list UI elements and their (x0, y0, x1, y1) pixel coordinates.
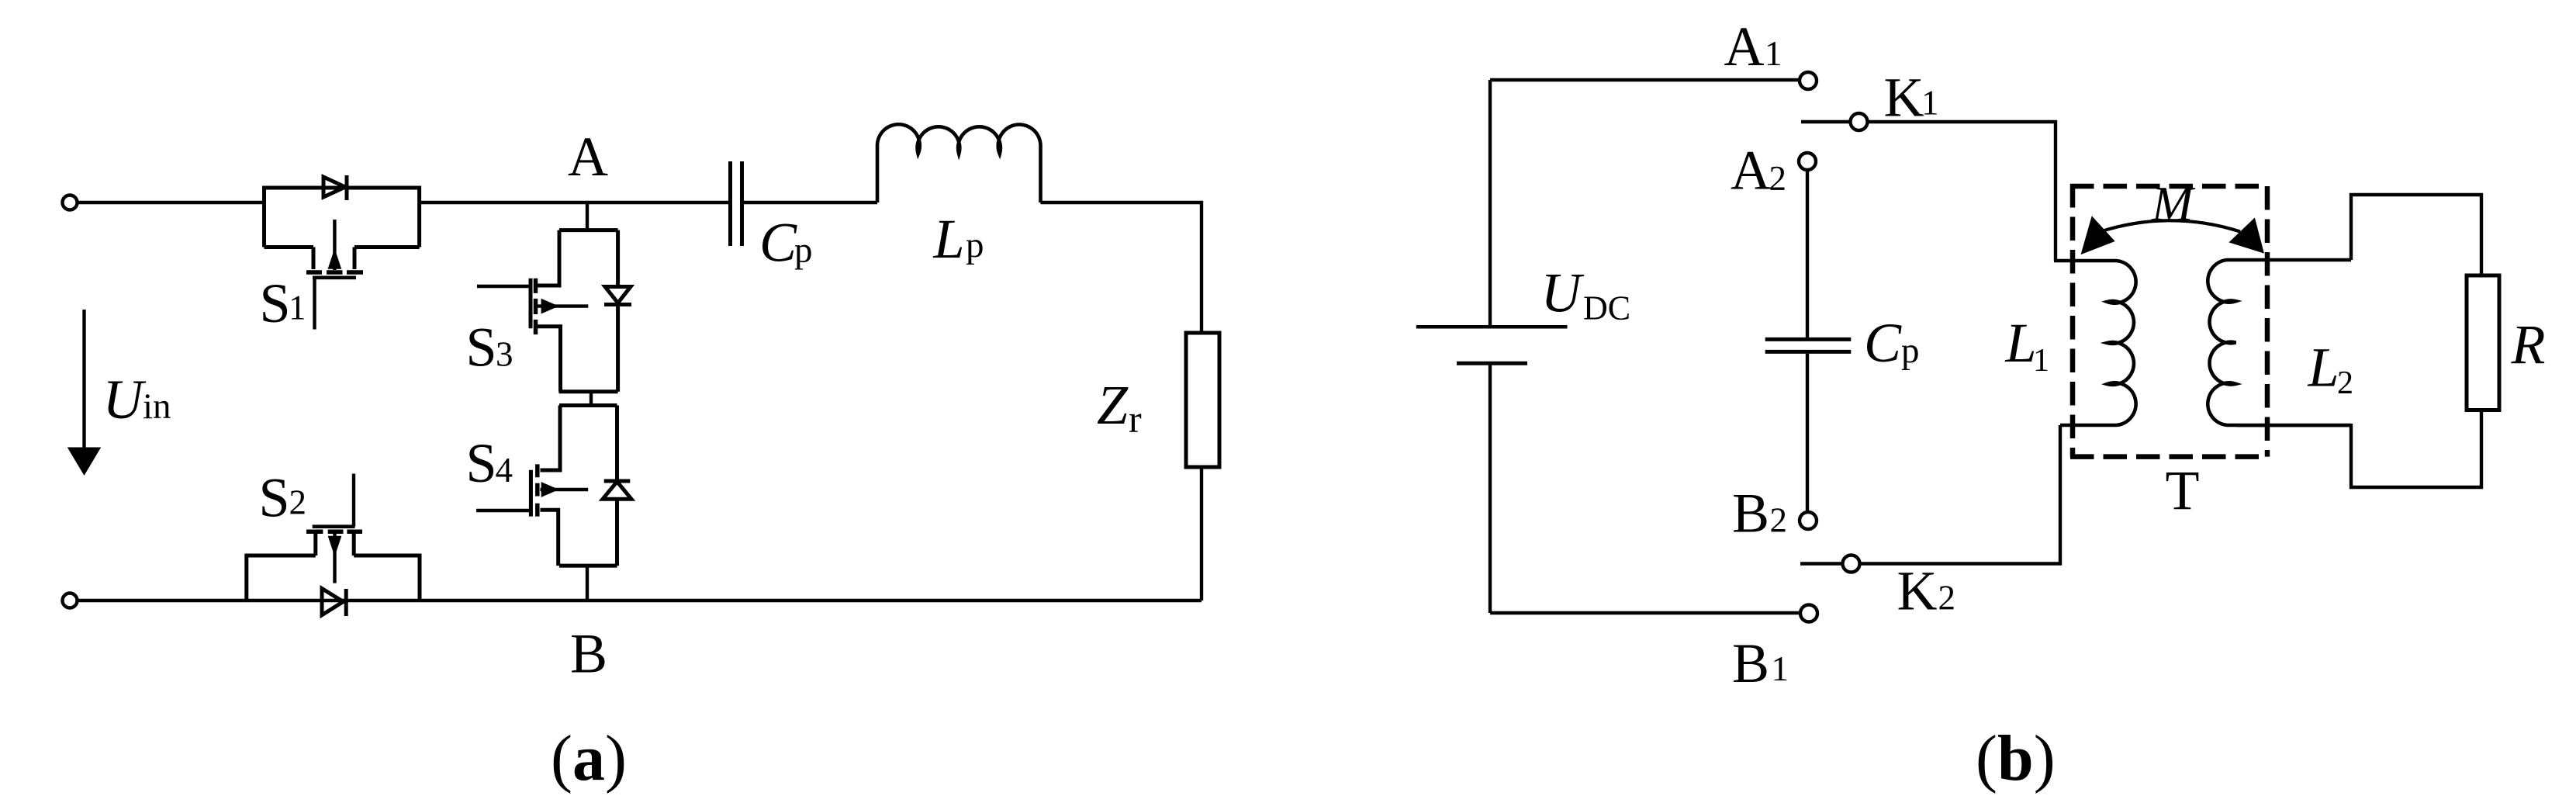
transistor S4 gate lead (476, 509, 531, 512)
transistor S4 channel (535, 464, 540, 516)
svg-text:L: L (2308, 336, 2339, 398)
svg-text:U: U (1541, 262, 1585, 324)
wire: Cp to B2 (1806, 354, 1809, 512)
capacitor Cp (a) (731, 161, 742, 246)
transistor S3 body arrow (538, 304, 589, 307)
transistor S1 gate lead (313, 278, 316, 330)
svg-text:1: 1 (1765, 34, 1782, 73)
svg-text:2: 2 (1769, 159, 1787, 198)
svg-text:T: T (2166, 459, 2200, 521)
svg-text:A: A (1724, 16, 1765, 78)
transistor S1 body arrow (333, 220, 336, 270)
wire: L2 to R loop (2237, 195, 2481, 487)
wire: UDC to A1 (1490, 78, 1798, 81)
diode D4 (S4 body diode) (603, 406, 631, 566)
svg-text:p: p (966, 225, 984, 265)
svg-text:B: B (570, 623, 607, 685)
capacitor Cp (b) (1765, 339, 1852, 351)
source UDC long plate (1416, 325, 1568, 329)
inductor L2 (transformer secondary) (2208, 260, 2351, 425)
terminal B1 (1800, 605, 1817, 622)
svg-text:1: 1 (289, 289, 306, 327)
wire: top rail left (78, 201, 265, 204)
mutual inductance M arrow (2101, 220, 2240, 231)
svg-text:L: L (933, 208, 965, 270)
transistor S3 box (536, 230, 618, 392)
svg-text:DC: DC (1583, 289, 1630, 327)
svg-text:C: C (1864, 312, 1902, 374)
svg-text:A: A (568, 126, 608, 188)
svg-text:p: p (794, 230, 813, 271)
svg-text:L: L (2005, 312, 2037, 374)
switch K1 contact (1851, 113, 1868, 130)
svg-text:U: U (103, 369, 147, 431)
svg-text:2: 2 (2337, 365, 2353, 401)
transistor S3 channel (534, 279, 538, 334)
terminal B2 (1800, 512, 1817, 529)
wire: K1 to L1 (1869, 122, 2056, 261)
svg-text:S: S (260, 272, 291, 334)
diode D2 (antiparallel on S2) (322, 589, 346, 617)
transistor S3 gate plate (529, 279, 533, 329)
svg-text:C: C (759, 212, 797, 274)
wire: top rail from S1 to Cp (420, 201, 728, 204)
svg-text:A: A (1731, 140, 1771, 202)
svg-text:r: r (1129, 397, 1142, 441)
svg-text:Z: Z (1097, 374, 1129, 436)
diode D3 (S3 body diode) (604, 230, 631, 392)
node B stub (586, 566, 589, 601)
svg-text:1: 1 (1772, 649, 1789, 688)
switch K1 blade (1801, 120, 1850, 123)
svg-text:2: 2 (1938, 578, 1956, 617)
input terminal bottom (63, 594, 78, 608)
svg-text:p: p (1901, 331, 1920, 371)
wire: Zr to bottom rail (1200, 467, 1203, 601)
resistor R (2467, 275, 2499, 410)
transistor S4 gate plate (529, 470, 533, 517)
node A stub (586, 202, 589, 230)
svg-text:B: B (1732, 632, 1769, 694)
wire: bottom rail (78, 599, 1202, 602)
svg-text:M: M (2151, 176, 2196, 231)
source UDC leads (1489, 80, 1492, 613)
svg-text:1: 1 (2033, 343, 2049, 379)
input terminal top (63, 196, 78, 210)
diode D1 (antiparallel on S1) (323, 175, 347, 200)
switch K2 contact (1843, 556, 1860, 573)
wire: K2 to L1 bottom (1861, 425, 2060, 564)
svg-text:K: K (1884, 66, 1924, 128)
source UDC short plate (1457, 362, 1527, 365)
transistor S1 gate plate (313, 275, 356, 279)
terminal A2 (1799, 153, 1816, 170)
svg-text:4: 4 (496, 451, 513, 490)
svg-text:1: 1 (1921, 84, 1939, 123)
terminal A1 (1800, 72, 1817, 89)
wire: UDC to B1 (1490, 611, 1799, 614)
transistor S3 gate lead (477, 285, 531, 288)
transistor S2 channel contacts (306, 530, 362, 535)
transistor S1 channel contacts (306, 270, 363, 275)
inductor L1 (transformer primary) (2054, 261, 2136, 425)
switch K2 blade (1800, 562, 1841, 565)
arrow Uin (82, 310, 85, 450)
transformer T dashed core box (2070, 184, 2267, 457)
svg-text:R: R (2511, 313, 2546, 376)
transistor S2 body arrow (333, 534, 336, 583)
svg-text:(a): (a) (551, 722, 627, 794)
inductor Lp (877, 124, 1041, 202)
transistor S2 gate lead (352, 474, 355, 527)
transistor S2 gate plate (313, 524, 355, 528)
wire: A2 to Cp (1806, 171, 1809, 338)
svg-text:S: S (259, 466, 290, 528)
wire: S3-S4 junction (590, 392, 593, 406)
svg-text:in: in (143, 386, 171, 427)
svg-text:(b): (b) (1976, 722, 2056, 794)
switch S2 body box (247, 534, 420, 601)
svg-text:S: S (466, 317, 497, 379)
svg-text:K: K (1897, 559, 1938, 621)
svg-text:B: B (1732, 483, 1769, 545)
transistor S4 body arrow (541, 488, 589, 491)
svg-text:2: 2 (289, 483, 307, 522)
svg-text:S: S (466, 432, 497, 494)
wire: Cp to Lp (744, 201, 877, 204)
svg-text:2: 2 (1770, 501, 1788, 540)
switch S1 body box (265, 188, 420, 269)
wire: Lp to right corner (1040, 202, 1202, 333)
transistor S4 box (541, 406, 617, 566)
impedance Zr (1186, 333, 1219, 467)
svg-text:3: 3 (496, 334, 513, 373)
